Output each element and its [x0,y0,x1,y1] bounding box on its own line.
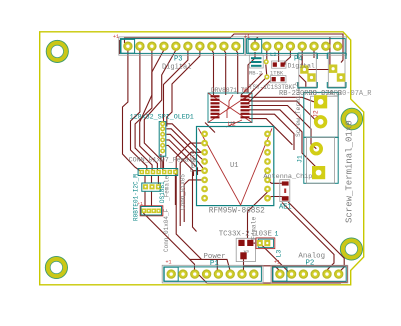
header P3 gray box [119,37,246,55]
svg-text:q: q [295,82,298,88]
L3 red outline [256,238,275,249]
header P1 keepout [164,267,262,281]
wire P3 pad9 to U2 [224,50,226,95]
D2 pad a [329,65,337,73]
wire P4 pad4 diag [285,50,291,65]
wire P3 pad3 down [135,50,152,172]
svg-text:Screw_Terminal_01x0: Screw_Terminal_01x0 [344,120,354,223]
svg-text:Conn_01x05: Conn_01x05 [180,174,187,210]
wire AE1 second diag [282,203,334,275]
wire P3 pad1 down [123,50,142,172]
svg-text:+1: +1 [274,260,280,266]
wire via bundle diag 3 [248,81,271,104]
J2 pad1 square [314,95,327,108]
svg-text:RB-2: RB-2 [249,70,262,77]
wire 7pin to 3pin a [144,176,146,183]
J1 keepout [304,137,338,183]
wire U2 out 3 [249,106,316,149]
wire P3 pad6 to OLED [164,50,188,122]
header P4 pin1 square [248,39,262,53]
U1 V outline [198,128,272,205]
D1 pad a [300,65,308,73]
J1 pad2 square [312,166,325,179]
wire OLED to U1 p1 [167,124,206,153]
svg-text:U1: U1 [230,162,238,170]
svg-text:TC33X-2-103E: TC33X-2-103E [219,231,273,239]
conn 7pin pads [140,170,178,175]
L3 pad a [257,240,263,246]
U1 RFM95W keepout [197,127,274,206]
wire P3 pad4 down [140,50,164,172]
D2 pad b [337,73,345,81]
svg-text:+1: +1 [166,260,172,266]
S1 gray box [249,55,263,68]
U2 name strike [226,120,242,127]
D1 box [299,54,317,88]
header P3 keepout [120,39,243,54]
P4 pads [250,42,342,51]
wire via link [266,65,267,77]
svg-text:Digital: Digital [162,64,191,72]
header P4 keepout [247,39,346,54]
D2 keepout corners [327,53,346,88]
P2 pads [275,269,343,278]
U2 cross lines [208,93,252,123]
header P4 gray box [245,37,347,55]
wire U1 bundle 1 [176,143,205,259]
via B [264,74,269,79]
svg-text:RB-230R30-07A_R: RB-230R30-07A_R [309,90,373,98]
trimpot RT1 box [236,238,255,261]
svg-text:P1: P1 [210,260,219,268]
header P2 red outline [272,266,347,282]
R1 pads [273,62,285,66]
AE1 pad bottom [282,196,289,201]
wire P4 pad2 to via [265,50,268,62]
wire 7pin pad7 down [174,175,176,206]
wire OLED down 1 [160,154,162,169]
U2 DRV8871 keepout [208,93,252,123]
wire bottom long [199,275,341,283]
svg-text:+1: +1 [244,34,250,40]
L3 keepout [258,239,273,247]
J1 pad1 ring [312,144,322,154]
svg-text:J1: J1 [297,155,304,163]
svg-text:P2: P2 [306,260,315,268]
header P3 pin1 square [121,39,135,53]
wire P1 pad5 drop [216,259,218,274]
OLED connector keepout [159,122,166,157]
svg-text:R0BTE01-I2C_M: R0BTE01-I2C_M [133,174,140,221]
wire trimpot to L3 [254,242,257,244]
conn 4pin pads [142,209,161,214]
wire 3pin to 4pin b [151,191,153,206]
U1 left pads [201,131,208,202]
AE1 middle [284,189,286,194]
wire U1 bundle 4 [184,180,205,222]
wire top rail [125,34,344,63]
trimpot pads [238,240,253,259]
conn 4pin red outline [140,206,163,216]
D1 keepout corners [298,53,318,88]
D2 box [328,54,345,88]
svg-text:+1: +1 [113,34,119,40]
svg-text:Digital: Digital [288,63,315,70]
wire AE1 to P2 [288,202,344,273]
svg-text:ws: ws [244,250,250,255]
svg-text:128x32_SPI_OLED1: 128x32_SPI_OLED1 [130,114,194,122]
wire P4 pad1 stub [255,37,258,50]
U2 left pads [211,95,220,118]
wire U1 to trimpot [248,192,268,238]
P1 pads [167,269,259,278]
svg-text:CONN_01x07_Female: CONN_01x07_Female [129,156,197,164]
svg-text:W: W [244,88,248,95]
mounting hole top-left [46,40,68,62]
conn 4pin keepout [141,207,162,216]
wire P3 pad5 down [144,50,176,172]
U1 right pads [264,131,271,202]
R1 gray box [272,61,287,68]
J2 gray box [311,96,338,137]
svg-text:Conn_01x04_F: Conn_01x04_F [163,208,170,252]
wire D boxes down [330,37,333,69]
wire OLED to U1 p3 [167,134,206,170]
svg-text:1: 1 [275,231,279,238]
svg-text:L2: L2 [270,51,277,58]
wire 3pin to 4pin a [144,191,146,206]
S1 teal bars [251,57,262,67]
wire trimpot bottom out [244,259,280,274]
wire 7pin to 3pin b [151,176,153,183]
wire long diag to P1 [143,213,194,274]
wire P4 pad5 to Q1 [302,50,304,70]
AE1 pad top [282,181,289,185]
wire OLED to U1 p2 [167,129,206,162]
wire Q1 link [304,69,333,71]
wire P4 pad1 to U2 [248,52,255,93]
mounting hole right-bottom [340,238,362,260]
wire U1 to AE1 bottom [268,197,282,199]
svg-text:DS18B1: DS18B1 [159,181,166,203]
header P2 keepout [273,267,347,281]
wire P3 pin1 bracket [119,40,121,54]
svg-text:AE1: AE1 [279,204,292,212]
wire U2 out 6 [249,119,292,145]
R2 pads [272,77,285,81]
wire trimpot to P1 pad7 [242,266,244,274]
P3 pads [123,42,240,51]
svg-text:RFM95W-868S2: RFM95W-868S2 [209,208,265,216]
wire U2 out 2 [249,101,317,121]
via A [264,59,269,64]
wire P3 pad10 to U2 [236,50,238,94]
wire U1 bundle 3 [193,171,206,232]
header P1 pin1 square [164,267,178,281]
J2 pad2 ring [316,117,326,127]
board outline [40,32,364,285]
wire OLED to U1 p4 [167,140,198,175]
wire U2 out 4 [249,110,319,173]
wire U2 out 1 [249,97,314,102]
U2 right pads [241,95,250,118]
svg-text:J2: J2 [313,110,320,118]
conn 3pin keepout [142,183,160,191]
wire OLED to U1 p5 [167,145,194,176]
conn 3pin pads [143,184,161,189]
wire P4 pad6 down [313,50,315,58]
wire U2 to U1 diag [205,123,215,133]
wire L3 to P2 [260,243,291,274]
wire U1 to AE1 top [268,180,282,183]
wire U2 out 5 [249,114,294,150]
header P2 gray box [271,265,348,283]
R2 gray box [271,76,287,83]
OLED pads [160,121,165,153]
wire U1 bundle 2 [180,152,205,226]
AE1 box [280,180,290,202]
svg-text:Antenna_Chip: Antenna_Chip [263,173,312,181]
header P2 pin1 square [273,267,287,281]
wire P3 pad2 down [131,50,147,172]
svg-text:L3: L3 [276,250,283,258]
conn 7pin keepout [138,169,178,176]
D1 pad b [307,73,315,81]
J1 gray box [307,137,335,183]
svg-text:P3: P3 [174,56,182,64]
svg-text:1TBK: 1TBK [270,70,284,77]
header P1 gray box [162,265,263,283]
wire Q1 diag [299,75,306,87]
wire OLED down 2 [163,156,165,169]
wire via bundle diag 1 [244,77,267,100]
L3 pad b [264,240,270,246]
wire P3 pad7 to OLED [167,50,200,127]
mounting hole bottom-left [45,256,67,278]
wire via bundle diag 2 [241,74,263,96]
pads of headers [123,42,343,279]
wire P1 feed horizontal [190,259,231,274]
svg-text:Female: Female [190,150,197,172]
wire 7pin pad4 down [157,176,159,184]
mounting hole right-top [341,108,363,130]
J2 keepout [304,92,338,137]
wire P3 pad8 to U2 [212,50,214,95]
wire P4 pad3 to R [278,50,280,62]
